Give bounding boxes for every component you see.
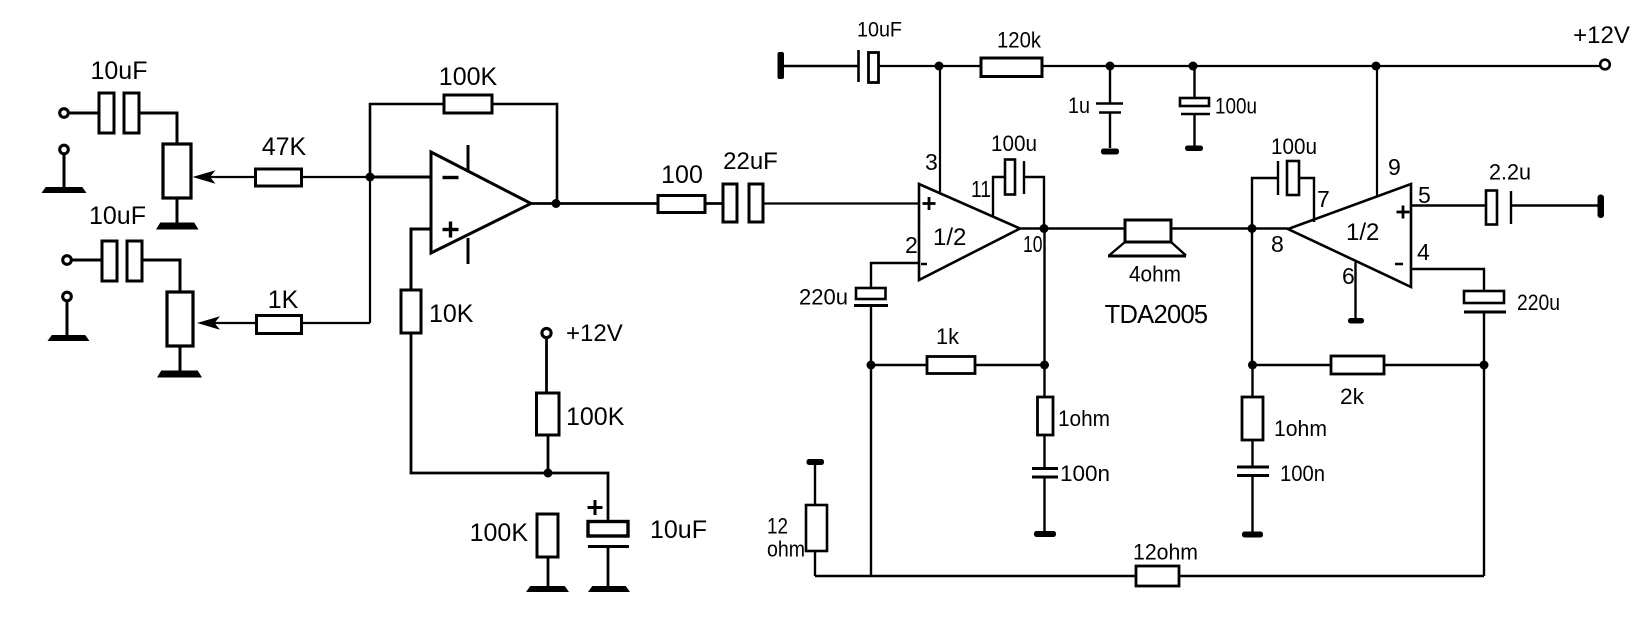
svg-text:1/2: 1/2 bbox=[1346, 219, 1379, 246]
svg-text:10: 10 bbox=[1023, 231, 1043, 257]
svg-text:2: 2 bbox=[905, 232, 918, 258]
svg-text:1ohm: 1ohm bbox=[1274, 416, 1327, 441]
svg-text:TDA2005: TDA2005 bbox=[1105, 301, 1208, 329]
svg-text:6: 6 bbox=[1342, 263, 1355, 289]
svg-text:100: 100 bbox=[661, 161, 703, 189]
svg-text:47K: 47K bbox=[262, 133, 307, 161]
svg-text:2.2u: 2.2u bbox=[1489, 160, 1531, 185]
svg-text:10uF: 10uF bbox=[857, 19, 902, 42]
svg-text:100K: 100K bbox=[566, 403, 625, 431]
svg-text:100n: 100n bbox=[1280, 461, 1325, 486]
svg-text:3: 3 bbox=[925, 149, 938, 175]
svg-text:1ohm: 1ohm bbox=[1058, 406, 1110, 431]
svg-text:100n: 100n bbox=[1060, 461, 1110, 486]
svg-text:1u: 1u bbox=[1068, 93, 1090, 118]
svg-text:11: 11 bbox=[971, 176, 991, 202]
svg-text:+12V: +12V bbox=[1573, 22, 1630, 49]
svg-text:100u: 100u bbox=[1271, 134, 1317, 159]
svg-text:100u: 100u bbox=[1215, 94, 1257, 119]
svg-text:1k: 1k bbox=[936, 324, 960, 349]
svg-text:9: 9 bbox=[1388, 154, 1401, 180]
svg-text:10uF: 10uF bbox=[91, 57, 148, 85]
svg-text:10uF: 10uF bbox=[650, 516, 707, 544]
svg-text:4: 4 bbox=[1417, 239, 1430, 265]
svg-text:100K: 100K bbox=[470, 519, 529, 547]
svg-text:10K: 10K bbox=[429, 300, 474, 328]
svg-text:100u: 100u bbox=[991, 131, 1037, 156]
svg-text:+12V: +12V bbox=[566, 320, 623, 347]
svg-text:22uF: 22uF bbox=[723, 148, 778, 175]
svg-text:12: 12 bbox=[767, 514, 788, 539]
svg-text:8: 8 bbox=[1271, 231, 1284, 257]
svg-text:ohm: ohm bbox=[767, 537, 805, 562]
svg-text:5: 5 bbox=[1418, 182, 1431, 208]
svg-text:220u: 220u bbox=[1517, 290, 1560, 315]
svg-text:100K: 100K bbox=[439, 63, 498, 91]
svg-text:4ohm: 4ohm bbox=[1129, 262, 1181, 287]
svg-text:120k: 120k bbox=[997, 28, 1042, 53]
svg-text:7: 7 bbox=[1317, 186, 1330, 212]
svg-text:12ohm: 12ohm bbox=[1133, 540, 1198, 565]
svg-text:220u: 220u bbox=[799, 285, 848, 310]
svg-text:1K: 1K bbox=[268, 286, 299, 314]
svg-text:2k: 2k bbox=[1340, 384, 1365, 409]
svg-text:1/2: 1/2 bbox=[933, 224, 966, 251]
svg-text:10uF: 10uF bbox=[89, 202, 146, 230]
